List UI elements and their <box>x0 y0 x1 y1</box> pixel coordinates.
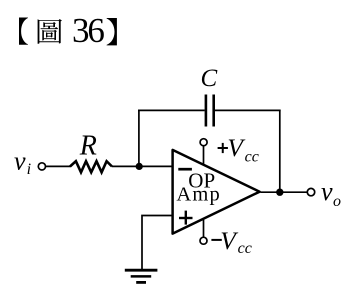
svg-text:6: 6 <box>87 11 105 50</box>
label -Vcc <box>211 226 251 257</box>
input terminal vi <box>38 163 45 170</box>
capacitor C plates <box>206 95 214 127</box>
label OP Amp <box>176 168 221 205</box>
junction output node dot <box>276 189 283 196</box>
node vo label <box>321 177 341 210</box>
wire input terminal to resistor <box>46 165 71 167</box>
wire capacitor to right corner <box>215 109 281 111</box>
ground <box>125 270 158 282</box>
op-amp noninverting input plus sign <box>179 211 193 225</box>
wire output <box>261 191 308 193</box>
wire feedback right vertical <box>279 110 281 193</box>
svg-text:v: v <box>14 146 26 175</box>
svg-text:R: R <box>79 131 97 162</box>
node vi label <box>14 146 31 178</box>
op-amp inverting input minus sign <box>178 168 192 171</box>
wire feedback left vertical <box>138 110 140 167</box>
wire feedback top left horizontal <box>138 109 205 111</box>
power pin +Vcc wire <box>203 146 205 164</box>
svg-text:cc: cc <box>245 149 259 166</box>
svg-text:cc: cc <box>238 240 252 257</box>
terminal -Vcc <box>200 237 207 244</box>
svg-text:Amp: Amp <box>176 184 221 206</box>
resistor R <box>70 161 112 172</box>
op-amp U1 triangle <box>173 150 260 234</box>
svg-text:v: v <box>321 177 333 206</box>
wire noninverting input to ground <box>142 216 173 270</box>
output terminal vo <box>307 188 314 195</box>
svg-text:i: i <box>27 161 31 178</box>
label +Vcc <box>218 133 259 166</box>
title bracket right 】 <box>107 18 117 45</box>
title bracket left 【 <box>19 18 28 45</box>
wire resistor to inverting input <box>112 165 172 167</box>
junction node inverting input dot <box>136 163 143 170</box>
power pin -Vcc wire <box>203 220 205 238</box>
title character 圖 <box>38 19 62 44</box>
svg-text:C: C <box>201 65 218 92</box>
terminal +Vcc <box>200 139 207 146</box>
svg-text:o: o <box>333 193 341 210</box>
